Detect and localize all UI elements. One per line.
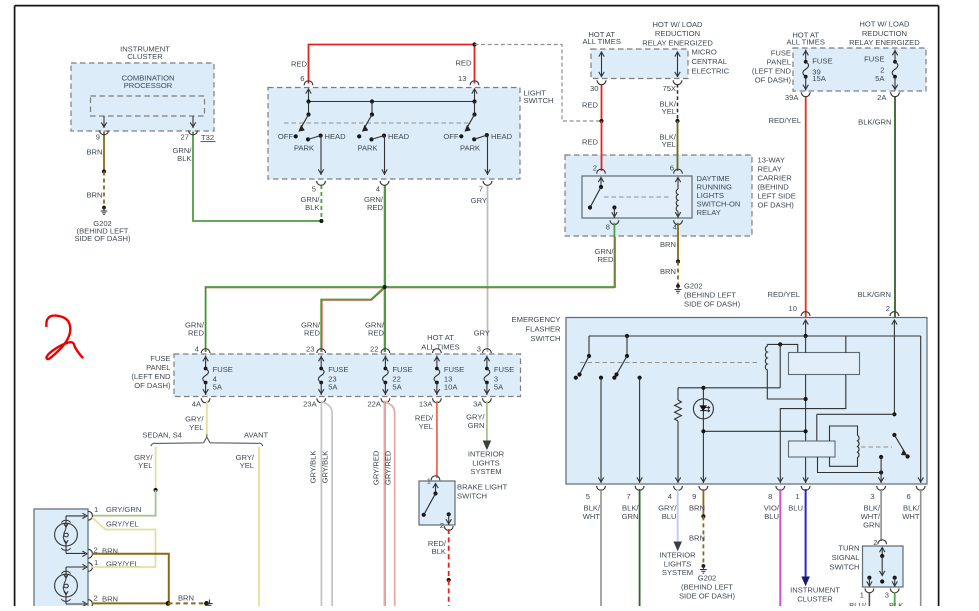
svg-text:FUSE: FUSE — [444, 365, 464, 374]
svg-text:GRY/YEL: GRY/YEL — [106, 520, 139, 529]
light switch bus — [306, 99, 476, 103]
svg-text:EMERGENCY: EMERGENCY — [512, 315, 561, 324]
tss common line — [880, 556, 885, 584]
svg-text:INSTRUMENT: INSTRUMENT — [790, 585, 840, 594]
wire GRY/YEL avant branch — [236, 447, 259, 606]
svg-text:RED: RED — [597, 255, 614, 264]
headlamp bulb 2 — [55, 564, 87, 606]
svg-text:4: 4 — [673, 223, 677, 232]
svg-text:T32: T32 — [201, 133, 214, 142]
svg-text:30: 30 — [590, 84, 598, 93]
svg-text:GRY: GRY — [474, 329, 490, 338]
svg-text:4: 4 — [195, 345, 199, 354]
headlamp bulb 1 — [55, 513, 87, 556]
svg-text:BLU: BLU — [764, 512, 779, 521]
svg-text:HEAD: HEAD — [388, 132, 410, 141]
svg-text:1: 1 — [427, 477, 431, 486]
wire VIO/BLU pin 8 — [764, 489, 781, 606]
svg-text:1: 1 — [94, 558, 98, 567]
svg-text:OF DASH): OF DASH) — [758, 201, 795, 210]
svg-text:REDUCTION: REDUCTION — [655, 29, 700, 38]
svg-text:3A: 3A — [473, 400, 483, 409]
svg-text:13A: 13A — [419, 400, 433, 409]
svg-text:LEFT SIDE: LEFT SIDE — [758, 192, 796, 201]
svg-text:10: 10 — [789, 304, 797, 313]
svg-text:RED: RED — [368, 329, 385, 338]
svg-text:2: 2 — [94, 594, 98, 603]
svg-text:CARRIER: CARRIER — [758, 174, 793, 183]
headlamp pin 1 upper — [88, 505, 141, 520]
flasher pin 6 — [906, 486, 925, 501]
svg-text:RED: RED — [582, 101, 599, 110]
svg-text:BLU: BLU — [662, 512, 677, 521]
fuse 23 5A — [303, 349, 348, 409]
flasher coil 2 — [830, 426, 860, 466]
light switch section 3 — [443, 102, 512, 176]
svg-text:1: 1 — [94, 505, 98, 514]
svg-text:5A: 5A — [494, 382, 504, 391]
flasher pin 5 — [586, 486, 606, 501]
flasher resistor — [675, 388, 682, 483]
wire GRY/BLK pair from fuse 23A — [308, 401, 332, 606]
svg-text:SYSTEM: SYSTEM — [470, 467, 501, 476]
svg-text:2: 2 — [886, 304, 890, 313]
label HOT AT ALL TIMES fuse 13 — [421, 333, 481, 354]
svg-text:PARK: PARK — [460, 143, 480, 152]
svg-text:PARK: PARK — [357, 143, 377, 152]
wire RED/BLK dashed lower — [448, 580, 450, 606]
svg-text:7: 7 — [479, 185, 483, 194]
relay pin 2 contact — [593, 164, 606, 190]
svg-text:HEAD: HEAD — [491, 132, 513, 141]
svg-text:SIDE OF DASH): SIDE OF DASH) — [74, 234, 131, 243]
wire BRN dashed headlamp — [168, 594, 205, 604]
svg-text:BRN: BRN — [660, 240, 676, 249]
headlamp pin 1 lower — [88, 558, 139, 571]
svg-text:RED: RED — [291, 60, 308, 69]
svg-text:LIGHTS: LIGHTS — [664, 559, 691, 568]
node brn splice flasher — [701, 514, 705, 518]
svg-text:3: 3 — [870, 492, 874, 501]
svg-text:BLK: BLK — [432, 547, 446, 556]
svg-text:6: 6 — [906, 492, 910, 501]
wire BLU pin 1 — [788, 489, 809, 585]
svg-text:BLU/: BLU/ — [849, 601, 867, 606]
svg-text:8: 8 — [606, 223, 610, 232]
svg-text:23A: 23A — [303, 400, 317, 409]
flasher pin 9 — [692, 486, 708, 501]
node red/blk splice — [447, 578, 451, 582]
wire GRY from light switch pin 7 — [471, 185, 488, 352]
svg-text:RED: RED — [188, 329, 205, 338]
svg-text:2: 2 — [440, 521, 444, 530]
wire RED from pin 30 — [582, 84, 602, 121]
flasher LED indicator — [693, 388, 713, 483]
svg-text:8: 8 — [768, 492, 772, 501]
svg-text:PARK: PARK — [294, 143, 314, 152]
svg-text:75X: 75X — [662, 84, 676, 93]
svg-text:SWITCH: SWITCH — [524, 96, 554, 105]
wire BLK/GRN from fuse 2 — [858, 96, 895, 318]
svg-text:22A: 22A — [367, 400, 381, 409]
wire BLK/YEL to relay pin 6 — [660, 121, 678, 171]
svg-text:BLK: BLK — [889, 601, 903, 606]
svg-text:YEL: YEL — [662, 107, 676, 116]
flasher mech link 2 dashed — [861, 446, 892, 448]
light switch pin 5 — [312, 181, 326, 194]
svg-text:2A: 2A — [877, 93, 887, 102]
wire RED/YEL from fuse 39 — [768, 96, 806, 317]
svg-text:PANEL: PANEL — [767, 58, 791, 67]
wire dashed link to hot feed — [475, 45, 602, 122]
svg-text:RELAY: RELAY — [758, 165, 782, 174]
svg-text:SIGNAL: SIGNAL — [832, 553, 860, 562]
wire BRN dashed to ground relay — [660, 262, 678, 286]
svg-text:5A: 5A — [875, 74, 885, 83]
svg-text:ELECTRIC: ELECTRIC — [692, 67, 730, 76]
svg-text:FUSE: FUSE — [771, 49, 791, 58]
node grn/blk junction — [319, 219, 323, 223]
wire BRN dashed flasher — [689, 516, 705, 565]
svg-text:22: 22 — [370, 345, 378, 354]
svg-text:(LEFT END: (LEFT END — [752, 67, 792, 76]
flasher pin 2 top — [890, 312, 899, 415]
flasher switch pole 1 — [574, 336, 591, 380]
label interior lights system fuse 3 — [468, 450, 505, 476]
svg-text:4: 4 — [376, 185, 380, 194]
wire GRY/BLU pin 4 — [658, 489, 681, 550]
svg-text:BRAKE LIGHT: BRAKE LIGHT — [457, 483, 508, 492]
svg-text:6: 6 — [670, 164, 674, 173]
fuse 2 5A — [864, 50, 899, 103]
svg-text:SEDAN, S4: SEDAN, S4 — [142, 430, 182, 439]
flasher pin 7 line — [637, 376, 642, 483]
flasher contact block 2 — [789, 441, 836, 457]
mce hot at all times label — [582, 30, 620, 46]
fuse panel box lower — [131, 354, 520, 397]
svg-text:RELAY ENERGIZED: RELAY ENERGIZED — [849, 38, 920, 47]
svg-text:5A: 5A — [328, 382, 338, 391]
flasher top bus — [589, 334, 921, 338]
svg-text:SWITCH: SWITCH — [457, 492, 487, 501]
wire RED light switch feed — [291, 45, 475, 84]
svg-text:CENTRAL: CENTRAL — [692, 57, 727, 66]
wire BLK/WHT pin 5 — [583, 489, 601, 606]
svg-text:6: 6 — [300, 74, 304, 83]
light switch pin 4 — [376, 181, 389, 194]
svg-text:15A: 15A — [812, 74, 826, 83]
wire BRN from cluster pin 9 — [86, 132, 104, 172]
svg-text:BLK: BLK — [177, 154, 191, 163]
instrument cluster box — [71, 45, 214, 132]
flasher pin 3 — [870, 486, 885, 501]
svg-text:(LEFT END: (LEFT END — [131, 372, 171, 381]
svg-text:4A: 4A — [192, 400, 202, 409]
splice splitter sedan/avant — [142, 430, 268, 446]
wire BLK/GRN pin 7 — [622, 489, 640, 606]
svg-text:ALL TIMES: ALL TIMES — [582, 37, 620, 46]
mce pin 30 feed — [590, 52, 606, 94]
node red/dashed junction — [472, 42, 476, 46]
svg-text:RELAY ENERGIZED: RELAY ENERGIZED — [642, 38, 713, 47]
label T32 — [201, 133, 216, 142]
fuse 3 5A — [473, 349, 514, 409]
svg-text:(BEHIND: (BEHIND — [758, 183, 790, 192]
svg-text:RELAY: RELAY — [697, 208, 721, 217]
svg-text:2: 2 — [593, 164, 597, 173]
svg-text:FUSE: FUSE — [812, 56, 832, 65]
svg-text:RED: RED — [455, 59, 472, 68]
node grn/red junction — [383, 285, 387, 289]
svg-text:RED: RED — [304, 329, 321, 338]
svg-text:10A: 10A — [444, 382, 458, 391]
wire RED to relay pin 2 — [582, 121, 602, 171]
flasher coil 1 — [765, 342, 805, 399]
svg-text:3: 3 — [885, 591, 889, 600]
svg-text:SIDE OF DASH): SIDE OF DASH) — [679, 591, 736, 600]
svg-text:BLK/GRN: BLK/GRN — [858, 290, 891, 299]
combination processor inner box — [91, 74, 205, 117]
svg-text:SIDE OF DASH): SIDE OF DASH) — [684, 299, 741, 308]
emergency flasher switch box — [512, 315, 927, 484]
svg-text:MICRO: MICRO — [692, 48, 717, 57]
node red hot junction — [599, 119, 603, 123]
svg-text:PANEL: PANEL — [146, 363, 170, 372]
svg-text:AVANT: AVANT — [244, 430, 269, 439]
svg-text:SWITCH: SWITCH — [531, 334, 561, 343]
turn signal switch box — [830, 543, 903, 587]
node blk/yel junction — [675, 119, 679, 123]
wire BLK/YEL dashed from pin 75X — [660, 84, 678, 121]
tss contact 3 — [885, 576, 899, 600]
svg-text:HOT W/ LOAD: HOT W/ LOAD — [652, 20, 703, 29]
brake switch arm — [422, 494, 436, 517]
svg-text:OF DASH): OF DASH) — [755, 76, 792, 85]
svg-text:9: 9 — [692, 492, 696, 501]
svg-text:YEL: YEL — [189, 423, 203, 432]
flasher resistor top link — [678, 386, 780, 390]
svg-text:BRN: BRN — [689, 504, 705, 513]
svg-text:1: 1 — [795, 492, 799, 501]
svg-text:GRY/GRN: GRY/GRN — [106, 505, 141, 514]
svg-text:13: 13 — [458, 74, 466, 83]
svg-text:CLUSTER: CLUSTER — [797, 594, 833, 603]
wire GRN/RED from relay pin 8 — [595, 247, 615, 264]
flasher mech link dashed — [580, 362, 760, 364]
svg-text:FUSE: FUSE — [213, 365, 233, 374]
ground headlamp — [204, 600, 213, 606]
svg-text:FUSE: FUSE — [864, 54, 884, 63]
wire BRN pin 9 — [689, 489, 705, 516]
tss contact 1 — [860, 576, 874, 600]
fuse 4 5A — [192, 349, 233, 409]
svg-text:BRN: BRN — [86, 191, 102, 200]
svg-text:OFF: OFF — [278, 132, 294, 141]
svg-text:FUSE: FUSE — [328, 365, 348, 374]
light switch section 2 — [357, 102, 410, 176]
flasher led bottom link — [701, 429, 805, 433]
svg-text:GRN: GRN — [468, 421, 485, 430]
fuse 22 5A — [367, 349, 412, 409]
fuse 13 10A — [419, 349, 464, 409]
wire GRN/RED distribution bus — [206, 237, 615, 353]
red handwritten mark — [46, 316, 83, 359]
flasher contact block 1 — [789, 353, 860, 375]
svg-text:CLUSTER: CLUSTER — [127, 52, 163, 61]
light switch box — [268, 88, 553, 180]
flasher relay2 output — [818, 457, 884, 475]
svg-text:HOT W/ LOAD: HOT W/ LOAD — [859, 20, 910, 29]
wire GRY/YEL from fuse 4A — [185, 401, 207, 434]
svg-text:OF DASH): OF DASH) — [134, 381, 171, 390]
svg-text:23: 23 — [306, 345, 314, 354]
light switch pin 13 — [458, 74, 479, 102]
wire tss pin1 out — [849, 592, 869, 610]
svg-text:G202: G202 — [684, 281, 703, 290]
flasher pin 8 — [768, 486, 785, 501]
svg-text:BRN: BRN — [178, 594, 194, 603]
svg-text:GRY/RED: GRY/RED — [384, 450, 393, 485]
mce hot w/load label — [642, 20, 713, 47]
svg-text:5A: 5A — [213, 382, 223, 391]
label GRY fuse 3 — [474, 329, 490, 338]
svg-text:HOT AT: HOT AT — [427, 333, 454, 342]
wire BLK/WHT pin 6 — [902, 489, 920, 606]
svg-text:TURN: TURN — [838, 543, 859, 552]
svg-text:SYSTEM: SYSTEM — [662, 568, 693, 577]
light switch pin 6 — [300, 74, 313, 102]
headlamp assembly box — [34, 509, 88, 609]
wire GRY/GRN from fuse 3A — [466, 401, 490, 449]
hot w/load label right — [849, 20, 920, 47]
wire BRN dashed to ground — [86, 172, 104, 207]
light switch pin 7 — [479, 181, 492, 194]
svg-text:BLK: BLK — [305, 203, 319, 212]
brake switch pin 2 — [440, 512, 453, 530]
relay coil — [670, 164, 683, 232]
svg-text:5A: 5A — [392, 382, 402, 391]
svg-text:RED/YEL: RED/YEL — [769, 116, 802, 125]
svg-text:GRN: GRN — [863, 521, 880, 530]
svg-text:9: 9 — [96, 133, 100, 142]
wire GRY/YEL chain — [92, 518, 156, 568]
svg-text:5: 5 — [586, 492, 590, 501]
wire GRN/RED relay pin8 stub — [613, 223, 615, 237]
svg-text:LIGHTS: LIGHTS — [472, 458, 499, 467]
node brn splice — [102, 169, 106, 173]
flasher pin 7 — [626, 486, 644, 501]
headlamp pin 2 lower — [88, 594, 118, 609]
wire GRN/BLK from cluster pin 27 — [173, 132, 322, 222]
svg-text:BRN: BRN — [660, 267, 676, 276]
brake switch pin 1 — [427, 476, 440, 496]
13-way relay carrier box — [565, 155, 796, 236]
svg-text:YEL: YEL — [419, 422, 433, 431]
svg-text:7: 7 — [626, 492, 630, 501]
svg-text:ALL TIMES: ALL TIMES — [786, 38, 824, 47]
svg-text:FUSE: FUSE — [494, 365, 514, 374]
svg-text:5: 5 — [312, 185, 316, 194]
flasher pin 10 — [801, 312, 810, 336]
svg-text:SWITCH: SWITCH — [830, 562, 860, 571]
wire BLK/WHT/GRN pin 3 — [861, 489, 882, 541]
label instrument cluster flasher — [790, 585, 840, 603]
ground G202 relay — [675, 281, 741, 308]
svg-text:39A: 39A — [785, 93, 799, 102]
svg-text:GRY/RED: GRY/RED — [371, 450, 380, 485]
micro central electric box — [591, 48, 730, 79]
label interior lights system flasher — [659, 551, 696, 577]
svg-text:3: 3 — [477, 345, 481, 354]
svg-text:YEL: YEL — [138, 461, 152, 470]
wire BRN headlamp lower — [92, 602, 168, 604]
svg-text:GRY/BLK: GRY/BLK — [308, 451, 317, 484]
svg-text:FLASHER: FLASHER — [525, 324, 561, 333]
node sedan splice — [154, 488, 158, 492]
svg-text:GRY/BLK: GRY/BLK — [321, 451, 330, 484]
mce pin 75X feed — [662, 52, 681, 94]
flasher pin8 column — [778, 336, 846, 483]
svg-text:BRN: BRN — [689, 534, 705, 543]
label GRN/RED fuse 23 — [301, 321, 321, 354]
fuse 39 15A — [785, 50, 833, 103]
flasher pin 1 — [795, 486, 810, 501]
brake light switch box — [419, 481, 508, 525]
flasher pin6 column — [918, 336, 923, 483]
wire RED/BLK dashed — [428, 529, 449, 580]
light switch mech link dashed — [284, 122, 470, 124]
svg-text:YEL: YEL — [240, 461, 254, 470]
svg-text:FUSE: FUSE — [392, 365, 412, 374]
wire RED/YEL from fuse 13A — [415, 401, 437, 478]
headlamp pin 2 upper — [88, 546, 118, 559]
wire BRN headlamp upper — [92, 554, 169, 604]
label GRN/RED fuse 22 — [365, 321, 385, 354]
svg-text:(BEHIND LEFT: (BEHIND LEFT — [681, 583, 733, 592]
relay pin 8 contact — [606, 205, 619, 231]
tss pin 2 — [873, 538, 886, 558]
svg-text:G202: G202 — [698, 574, 717, 583]
flasher switch arm 2 — [892, 433, 909, 459]
svg-text:BRN: BRN — [102, 595, 118, 604]
svg-text:BRN: BRN — [86, 148, 102, 157]
svg-text:OFF: OFF — [443, 132, 459, 141]
flasher pin 5 line — [598, 376, 603, 483]
light switch section 1 — [278, 102, 346, 176]
svg-text:4: 4 — [668, 492, 672, 501]
svg-text:GRY: GRY — [471, 196, 487, 205]
svg-text:WHT: WHT — [902, 512, 920, 521]
svg-text:HEAD: HEAD — [325, 132, 347, 141]
ground G202 cluster — [74, 206, 131, 243]
svg-text:BLU: BLU — [788, 504, 803, 513]
svg-text:RED: RED — [367, 203, 384, 212]
daytime running lights switch-on relay inner box — [582, 174, 740, 218]
cluster pin 9 — [96, 116, 109, 142]
svg-text:INTERIOR: INTERIOR — [468, 450, 505, 459]
svg-text:FUSE: FUSE — [150, 354, 170, 363]
svg-text:INTERIOR: INTERIOR — [659, 551, 696, 560]
label GRN/RED fuse 4 — [185, 321, 205, 354]
wire tss pin3 out — [889, 592, 903, 610]
svg-text:2: 2 — [873, 538, 877, 547]
svg-text:RED/YEL: RED/YEL — [768, 290, 801, 299]
svg-text:13-WAY: 13-WAY — [758, 156, 785, 165]
cluster pin 27 — [181, 116, 198, 142]
flasher pin1 column — [803, 336, 808, 483]
svg-text:YEL: YEL — [662, 140, 676, 149]
svg-text:(BEHIND LEFT: (BEHIND LEFT — [684, 290, 736, 299]
